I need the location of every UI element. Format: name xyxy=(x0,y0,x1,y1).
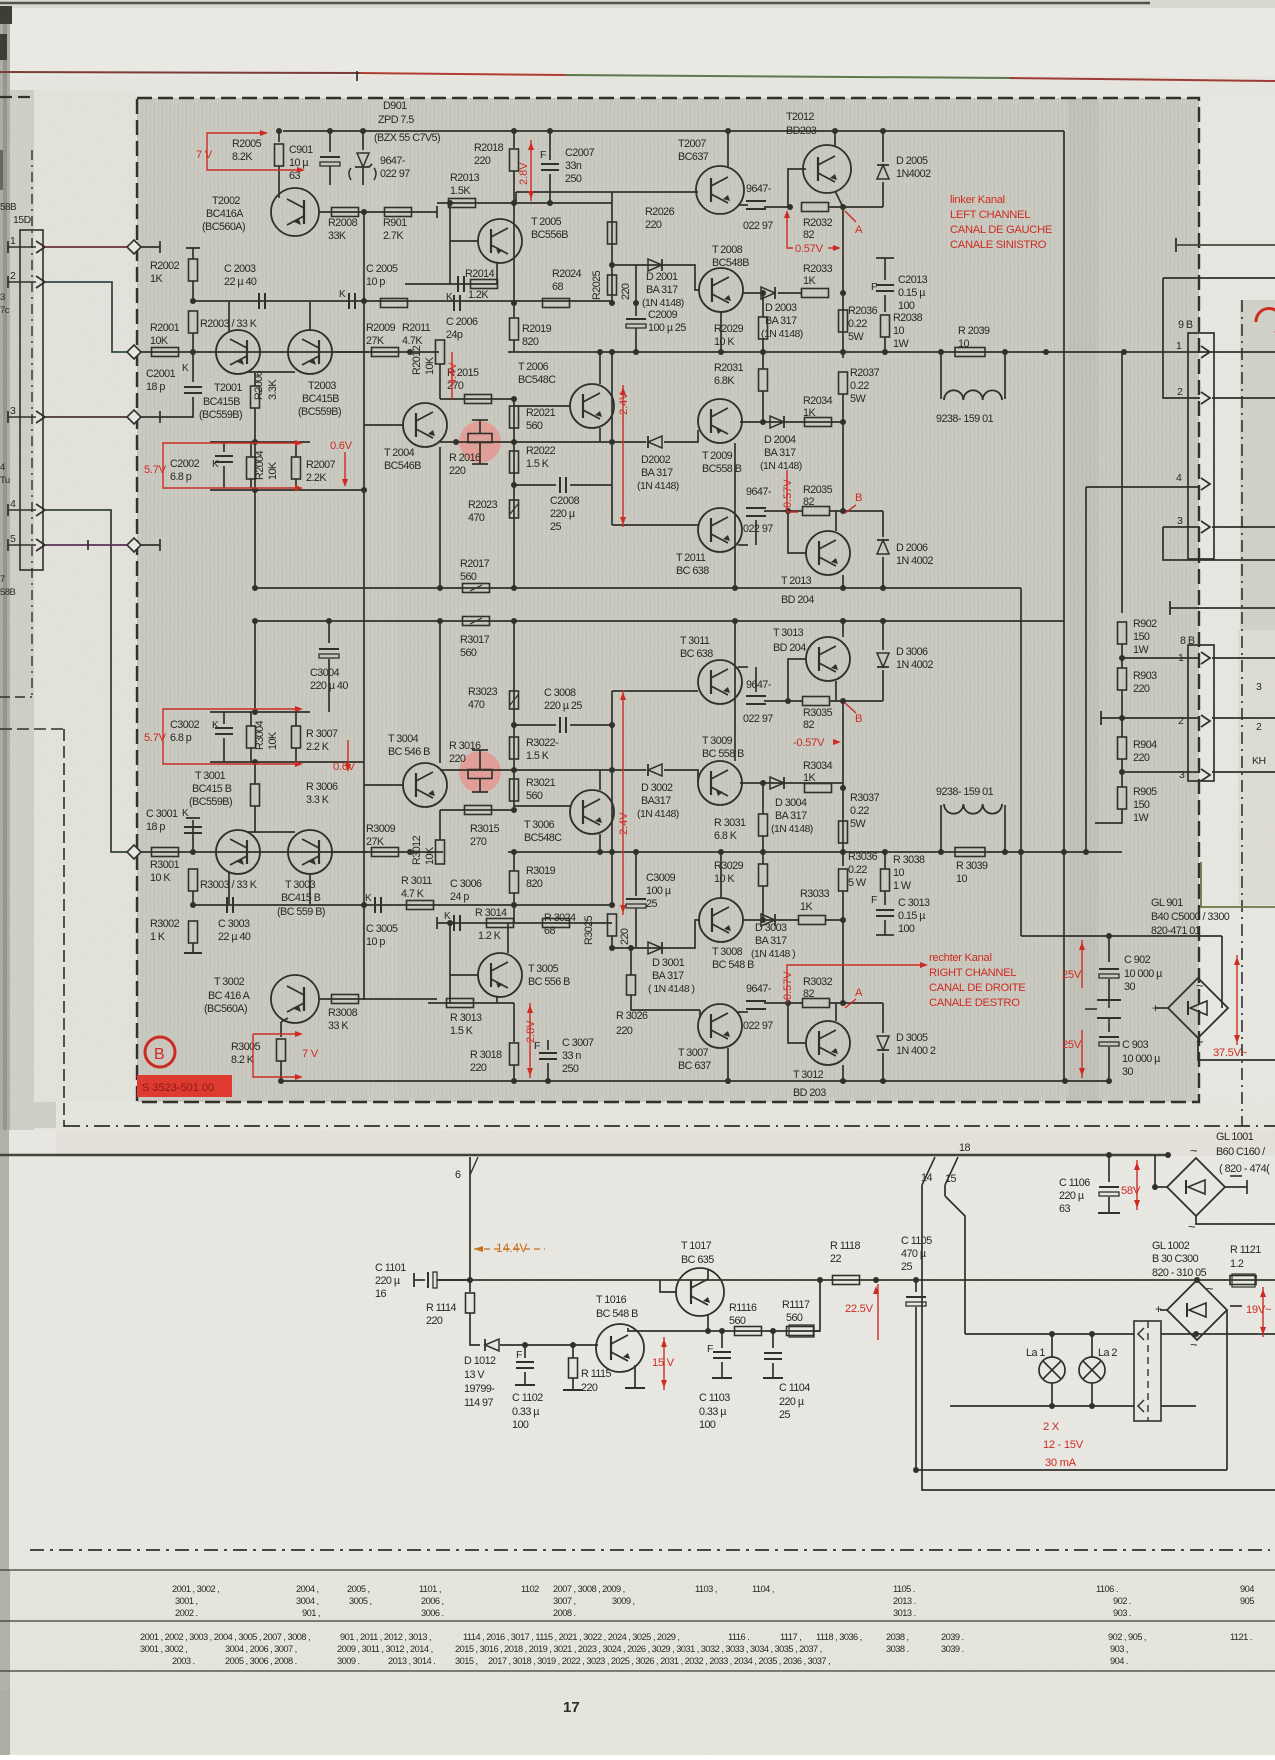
coupling 9647 c xyxy=(746,508,766,516)
wire bridge right xyxy=(1221,936,1223,1008)
transistor T2003 xyxy=(288,330,332,374)
ann 057c line xyxy=(833,741,838,743)
wire pin2 to block xyxy=(45,282,131,352)
wire x514 R xyxy=(513,621,515,810)
wire y490 xyxy=(210,489,364,491)
arrow 24b d xyxy=(620,905,626,913)
connector lamp box xyxy=(1134,1321,1161,1421)
outer frame left horiz xyxy=(0,728,64,730)
wire y762 xyxy=(210,761,364,763)
pin 5 tick xyxy=(7,539,9,551)
rail supply xyxy=(437,1279,1197,1281)
node D2005 rail xyxy=(880,128,886,134)
resistor R2009 xyxy=(372,348,399,357)
coloured line seg2 xyxy=(360,73,565,75)
pin 3 arrow xyxy=(36,411,45,423)
node 514 770 xyxy=(511,767,517,773)
wire x843 xyxy=(842,207,844,352)
transistor T1016 xyxy=(596,1324,644,1372)
capacitor C2002 xyxy=(215,456,233,462)
wire D901a xyxy=(362,131,364,150)
wire R3031b xyxy=(762,836,764,852)
wire R2002b xyxy=(192,281,194,301)
wire R2006b xyxy=(254,408,256,442)
arrow 7V a xyxy=(260,130,268,136)
wire T2004 em xyxy=(439,447,441,588)
wire T3006 base xyxy=(514,805,570,807)
bridge rectifier GL901 xyxy=(1168,978,1228,1038)
connector lamp dash xyxy=(1147,1321,1149,1421)
wire la1 b xyxy=(1051,1383,1053,1406)
resistor R3023 xyxy=(510,691,519,709)
wire R2005 top xyxy=(278,131,280,142)
coupling 9647 a xyxy=(746,201,766,209)
ann 15V line xyxy=(663,1337,665,1390)
node 1109 1155 xyxy=(1106,1152,1112,1158)
arrow 057a xyxy=(833,245,841,251)
wire R1114a xyxy=(469,1280,471,1292)
wire R1115b xyxy=(572,1378,574,1390)
node 763 852 xyxy=(760,849,766,855)
node 885 852 xyxy=(882,849,888,855)
vertical bus x1021 xyxy=(1020,588,1022,936)
diode D2004 xyxy=(770,416,784,428)
wire C2007 xyxy=(549,131,551,160)
capacitor C901 xyxy=(320,157,340,166)
node 883 588 xyxy=(880,585,886,591)
arrow 24 u xyxy=(620,387,626,395)
resistor R2025 xyxy=(608,275,617,295)
wire C3007b xyxy=(547,1063,549,1081)
wire R2004a xyxy=(250,442,252,457)
wire C1105a xyxy=(915,1280,917,1292)
wire x612 top xyxy=(611,352,613,365)
wire T1017 col xyxy=(707,1270,709,1280)
resistor R2026 xyxy=(608,222,617,244)
node 364 490 xyxy=(361,487,367,493)
wire C903a xyxy=(1108,1026,1110,1032)
resistor R2036 xyxy=(839,310,848,332)
wire R2029b xyxy=(762,339,764,352)
node 456 442 xyxy=(453,439,459,445)
ground sym b xyxy=(1097,1017,1121,1019)
wire C2008 rowb xyxy=(570,484,612,486)
wire gl1001 bot xyxy=(1196,1216,1275,1224)
capacitor C3003 xyxy=(227,897,233,913)
node 514 621 xyxy=(511,618,517,624)
ground sym a xyxy=(1097,999,1121,1001)
resistor R2015 xyxy=(465,395,492,404)
resistor R3007 xyxy=(292,726,301,748)
coupling 9647 d xyxy=(746,696,766,704)
wire 8B pin1 xyxy=(1122,657,1200,659)
wire C2013a xyxy=(884,258,886,280)
wire C2001a xyxy=(192,352,194,382)
wire R2015 row xyxy=(440,398,514,400)
arrow 24b u xyxy=(620,692,626,700)
node 916 1470 xyxy=(913,1467,919,1473)
transistor T3008 xyxy=(699,898,743,942)
wire x612 low xyxy=(611,265,613,303)
connector 9B box xyxy=(1188,333,1214,559)
ann 057a line xyxy=(828,247,838,249)
resistor R3037 xyxy=(839,821,848,843)
ground tick R3002 xyxy=(184,952,202,954)
resistor R2001 xyxy=(152,348,179,357)
coloured line seg3 xyxy=(565,75,1010,78)
wire 9B pin3 route xyxy=(1163,526,1200,528)
8B pin1 arrow xyxy=(1201,652,1210,664)
wire x843 c xyxy=(842,394,844,511)
wire x255 R xyxy=(254,621,256,712)
node 883 621b xyxy=(880,618,886,624)
tick C1101 xyxy=(413,1273,415,1287)
wire T2012 em xyxy=(835,191,843,207)
wire C3009a xyxy=(635,852,637,896)
resistor R3038 xyxy=(881,869,890,891)
node 470 1280 xyxy=(467,1277,473,1283)
resistor R904 xyxy=(1118,737,1127,759)
node 9647 R2035 xyxy=(785,508,791,514)
node la1 bot xyxy=(1049,1403,1055,1409)
node 843 783 xyxy=(840,785,846,791)
transistor T2001 xyxy=(216,330,260,374)
node 514 905 xyxy=(511,902,517,908)
node 735 621 xyxy=(732,618,738,624)
capacitor C3005 xyxy=(375,897,381,913)
node 600 352 xyxy=(597,349,603,355)
node 255 621 xyxy=(252,618,258,624)
ann 057a elbow xyxy=(787,214,793,248)
wire T3009 em xyxy=(734,621,736,761)
node 843 588 xyxy=(840,585,846,591)
ann 7Vb box2 xyxy=(253,1034,296,1077)
node 763 422 xyxy=(760,419,766,425)
resistor R3031 xyxy=(759,814,768,836)
capacitor C3013 xyxy=(876,910,894,916)
diode D3002 xyxy=(648,764,662,776)
wire R3025b xyxy=(611,936,613,948)
node 1124 352 xyxy=(1121,349,1127,355)
zener diode D901 xyxy=(355,153,372,167)
diode D3003 xyxy=(761,914,775,926)
pin 3 tick xyxy=(7,411,9,423)
resistor R3024 xyxy=(543,919,570,928)
node 763 352 xyxy=(760,349,766,355)
transistor T3009 xyxy=(698,761,742,805)
wire C2009a xyxy=(635,303,637,316)
arrow 375 u xyxy=(1234,957,1240,965)
pin 4 stub xyxy=(8,509,36,511)
node 1005 352 xyxy=(1002,349,1008,355)
lamp box arrow2 xyxy=(1138,1400,1144,1412)
capacitor C1105 xyxy=(906,1297,926,1306)
arrow 7Vb a xyxy=(295,1031,303,1037)
wire R3033b xyxy=(826,919,843,921)
node 612 905 xyxy=(609,902,615,908)
node 843 852 xyxy=(840,849,846,855)
wire 9B pin2 routeb xyxy=(1163,278,1200,398)
outer frame left vert xyxy=(63,729,65,1127)
node 843 621 xyxy=(840,618,846,624)
node 450 923 xyxy=(447,920,453,926)
wire D2005b xyxy=(882,182,884,207)
node B junction R xyxy=(840,698,846,704)
resistor R2031 xyxy=(759,369,768,391)
wire gl1002 right xyxy=(1226,1310,1228,1470)
rail y1331 xyxy=(700,1330,820,1332)
input rail R xyxy=(141,851,443,853)
table line 1 xyxy=(0,1569,1275,1571)
transistor T3005 xyxy=(478,953,522,997)
resistor R3032 xyxy=(803,999,830,1008)
resistor R2008 xyxy=(332,208,359,217)
resistor R903 xyxy=(1118,668,1127,690)
wire T1017 em xyxy=(707,1314,709,1331)
node 9647 R3032 xyxy=(785,1000,791,1006)
resistor R2029 xyxy=(759,317,768,339)
arrow 7V b xyxy=(297,167,305,173)
node 514 810 xyxy=(511,807,517,813)
resistor R2024 xyxy=(543,299,570,308)
wire T3008 em xyxy=(720,852,722,898)
resistor R3019 xyxy=(510,871,519,893)
ann 06a line xyxy=(344,452,346,483)
wire x364 down xyxy=(363,490,365,712)
wire T3011 em xyxy=(738,666,748,668)
capacitor C3001 xyxy=(184,827,202,833)
rail y1470 xyxy=(916,1469,1227,1471)
node 885 352 xyxy=(882,349,888,355)
resistor R1115 xyxy=(569,1358,578,1378)
node 193 852 xyxy=(190,849,196,855)
component index table xyxy=(140,1584,1254,1666)
wire R3026b xyxy=(631,995,700,1010)
resistor R2014 xyxy=(471,280,498,289)
wire R3002b xyxy=(192,943,194,953)
node 410 852 xyxy=(407,849,413,855)
resistor R3009 xyxy=(372,848,399,857)
resistor R2007 xyxy=(292,457,301,479)
wire x843 b xyxy=(842,352,844,358)
tick C3001 top xyxy=(186,817,200,819)
node 843 293 xyxy=(840,290,846,296)
node 735 588 xyxy=(732,585,738,591)
resistor R3017 xyxy=(463,617,490,626)
inner frame left vert xyxy=(31,150,33,697)
sub rail y923 xyxy=(437,922,612,924)
diode D3006 xyxy=(877,653,889,667)
node 514 442 xyxy=(511,439,517,445)
capacitor C1104 xyxy=(764,1353,782,1359)
transistor T3012 xyxy=(806,1021,850,1065)
wire D3005b xyxy=(882,1053,884,1081)
resistor R1118 xyxy=(833,1276,860,1285)
node in L2 xyxy=(127,345,141,359)
wire R3013 to R3018 xyxy=(497,1002,514,1004)
pin 3 stub xyxy=(8,416,36,418)
node 514 303 xyxy=(511,300,517,306)
wire R3018b xyxy=(513,1065,515,1081)
wire T3005 cold xyxy=(449,923,451,1003)
resistor R3012 xyxy=(436,840,445,864)
capacitor C903 xyxy=(1099,1037,1119,1046)
wire R2038b xyxy=(884,337,886,352)
lamp La1 xyxy=(1039,1357,1065,1383)
node 612 725 xyxy=(609,722,615,728)
node gl1002 top xyxy=(1194,1277,1200,1283)
capacitor C1106 xyxy=(1099,1187,1119,1196)
wire 8B pin3 xyxy=(1122,771,1200,773)
wire T2001 col xyxy=(228,302,230,331)
diode D2001 xyxy=(648,259,662,271)
inductor R left xyxy=(940,805,942,852)
arrow 58 d xyxy=(1134,1200,1140,1208)
node 193 352 xyxy=(190,349,196,355)
resistor R3002 xyxy=(189,921,198,943)
resistor R3001 xyxy=(152,848,179,857)
resistor R3021 xyxy=(510,779,519,801)
node 255 588 xyxy=(252,585,258,591)
resistor R3025 xyxy=(608,914,617,936)
rail y936 xyxy=(1021,935,1222,937)
transistor T2013 xyxy=(806,531,850,575)
wire C2007b xyxy=(549,174,551,203)
resistor R2035 xyxy=(803,507,830,516)
resistor R3011 xyxy=(407,901,434,910)
tick on line xyxy=(356,71,358,81)
wire T2003 col xyxy=(309,302,311,331)
resistor R1117 xyxy=(787,1327,814,1336)
wire T3005 base xyxy=(450,974,478,976)
wire gl1001 left xyxy=(1155,1186,1167,1188)
node 612 265 xyxy=(609,262,615,268)
node in L xyxy=(127,240,141,254)
9B pin2 arrow xyxy=(1201,392,1210,404)
wire R3015 row xyxy=(440,809,514,811)
resistor R3006 xyxy=(251,784,260,806)
ann 7V box xyxy=(207,133,300,170)
wire D3002 row xyxy=(612,769,646,771)
pin 2 tick xyxy=(7,276,9,288)
ann 057b line xyxy=(787,470,798,512)
wire C3009b xyxy=(635,908,637,948)
wire pin1 to block xyxy=(45,246,133,248)
ground T1016 xyxy=(625,1387,645,1389)
wire T2002 base row xyxy=(319,211,437,213)
ann B2 line xyxy=(845,703,856,713)
wire emitters R xyxy=(247,831,295,833)
R1117 double xyxy=(789,1325,814,1337)
tick L4b xyxy=(159,539,161,551)
wire y442 xyxy=(210,441,310,443)
trimmer R3016 bar xyxy=(479,750,481,769)
resistor R901 xyxy=(385,208,412,217)
node 440 588 xyxy=(437,585,443,591)
wire R3012b xyxy=(439,810,441,840)
node 612 770 xyxy=(609,767,615,773)
wire R2033 row xyxy=(778,292,802,294)
wire T2013 col xyxy=(835,511,837,531)
wire T2006 em xyxy=(599,428,601,442)
wire T3001 col xyxy=(228,873,230,904)
wire R2002a xyxy=(192,248,194,259)
table line 2 xyxy=(0,1620,1275,1622)
ground C1102 xyxy=(515,1384,535,1386)
8B pin2 arrow xyxy=(1201,715,1210,727)
wire R2012b xyxy=(439,364,441,399)
wire R3005a xyxy=(280,1022,282,1037)
wire y770 mid xyxy=(505,769,612,771)
feedback rail R y905 xyxy=(193,904,612,906)
arrow 14.4V xyxy=(474,1246,483,1252)
node 843 920 xyxy=(840,917,846,923)
wire D2001 row xyxy=(612,265,700,290)
node 514 399 xyxy=(511,396,517,402)
node 843 422 xyxy=(840,419,846,425)
wire R3029a xyxy=(762,852,764,864)
wire R3004a xyxy=(250,712,252,726)
wire 9B pin3 up xyxy=(1163,527,1275,560)
resistor R2019 xyxy=(510,318,519,340)
capacitor C3009 xyxy=(626,899,646,908)
lamp box arrow1 xyxy=(1138,1328,1144,1340)
pink highlight L xyxy=(459,421,501,463)
tick gnd mid xyxy=(1085,1008,1097,1010)
arrow 19 u xyxy=(1260,1289,1266,1297)
node 708 1331 xyxy=(705,1328,711,1334)
wire D2006b xyxy=(882,557,884,588)
ann 2.4Vb line xyxy=(622,690,624,915)
arrow 057d xyxy=(920,962,928,968)
wire R2007b xyxy=(295,479,297,490)
wire C1103b xyxy=(721,1362,723,1378)
tick end R901 xyxy=(436,206,438,218)
node 1005 852 xyxy=(1002,849,1008,855)
arrow 06a xyxy=(342,479,348,487)
resistor R2034 xyxy=(805,418,832,427)
wire x843 R xyxy=(842,701,844,852)
resistor R2021 xyxy=(510,406,519,428)
rail y1334c xyxy=(1196,1333,1275,1335)
node 1168 1155 xyxy=(1165,1152,1171,1158)
transistor T2012 xyxy=(803,145,851,193)
wire T2005 down xyxy=(496,263,498,284)
node 525 1345 xyxy=(522,1342,528,1348)
resistor R3014 xyxy=(487,919,514,928)
arrow 28 u xyxy=(528,142,534,150)
resistor R3008 xyxy=(332,995,359,1004)
rail y621 xyxy=(255,620,1064,622)
node rail 550 xyxy=(547,128,553,134)
transistor T3011 xyxy=(698,660,742,704)
node 883 1081 xyxy=(880,1078,886,1084)
rail y1334b xyxy=(1161,1333,1197,1335)
wire C3004b xyxy=(328,659,330,712)
wire C3013b xyxy=(884,920,886,935)
wire D3006b xyxy=(882,670,884,701)
wire C2008 row xyxy=(514,484,556,486)
wire right c xyxy=(1170,607,1275,609)
coloured line seg1 xyxy=(0,72,360,73)
diode D3004 xyxy=(770,777,784,789)
node 450 203 xyxy=(447,200,453,206)
resistor R2003 xyxy=(189,311,198,333)
node 1109 936 xyxy=(1106,933,1112,939)
resistor R3036 xyxy=(839,869,848,891)
node 600 852 xyxy=(597,849,603,855)
ann 2.4V line xyxy=(622,385,624,527)
